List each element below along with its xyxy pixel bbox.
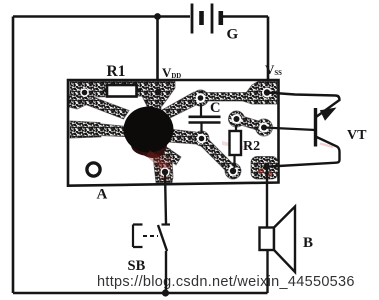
- node: capacitor top pad dot: [196, 93, 206, 103]
- pad: VSS corner pad: [243, 82, 277, 105]
- svg-text:SB: SB: [128, 258, 146, 274]
- wire: from bottom-right pad down to speaker: [266, 167, 268, 228]
- resistor R2: [230, 125, 242, 168]
- transistor VT: [264, 93, 340, 167]
- node: junction dot bottom rail / switch branch: [162, 289, 169, 296]
- red mark: red dots in bottom-right pad: [258, 168, 264, 174]
- trace: middle-left band: [70, 121, 101, 138]
- speaker B: [260, 167, 296, 293]
- wire: left rail: [12, 17, 15, 294]
- wire: emitter from VSS pad: [267, 93, 340, 118]
- red mark: crimson scribble below chip: [146, 150, 171, 173]
- node: bottom-right pad dot: [263, 163, 269, 169]
- pad: dumbbell right pad (base): [256, 119, 273, 136]
- svg-text:https://blog.csdn.net/weixin_4: https://blog.csdn.net/weixin_44550536: [97, 274, 355, 290]
- trace: diagonal from left area to chip: [82, 97, 129, 119]
- fixed contact tick: [162, 223, 171, 225]
- actuator dashed link: [143, 235, 158, 237]
- wire: VDD drop from top rail into board: [156, 17, 159, 93]
- trace: top-left band with VDD pad: [70, 82, 175, 107]
- node: R2 bottom pad dot: [228, 166, 238, 176]
- svg-text:C: C: [210, 100, 220, 116]
- wire: speaker bottom to rail: [266, 250, 268, 293]
- pad: R2 bottom pad: [225, 163, 241, 179]
- chip blob (COB): [124, 107, 174, 153]
- actuator bracket: [133, 225, 143, 248]
- node: capacitor bottom pad dot: [197, 134, 206, 143]
- pad: capacitor bottom pad: [194, 131, 209, 146]
- trace: chip down arm to switch pad: [153, 147, 173, 183]
- trace: VDD stem to chip: [147, 97, 161, 110]
- board outline A: [68, 80, 279, 186]
- trace: chip to top-right pad diagonal: [162, 92, 200, 118]
- svg-text:VT: VT: [347, 128, 367, 143]
- node: VDD pad dot: [155, 89, 161, 95]
- pad: dumbbell left pad (R2 top): [229, 111, 245, 127]
- capacitor C: [189, 104, 221, 133]
- blade: [158, 225, 167, 251]
- trace: top-right band to VSS: [200, 93, 248, 102]
- trace: dumbbell bar: [235, 115, 265, 132]
- node: VSS pad dot: [262, 88, 272, 98]
- node: dumbbell left pad dot: [232, 114, 242, 124]
- wire: collector down to pad: [270, 137, 340, 167]
- wire: top rail right segment (battery to right drop): [221, 15, 268, 17]
- svg-text:B: B: [303, 235, 313, 251]
- red mark: pink streak near R2 area: [222, 141, 244, 149]
- node: junction dot on top rail feeding VDD: [154, 13, 161, 20]
- node: dumbbell right pad dot: [259, 123, 269, 133]
- speaker box: [260, 228, 275, 251]
- pad: capacitor top pad: [193, 90, 209, 106]
- wire: bottom rail: [13, 292, 268, 295]
- emitter arrow: [320, 108, 337, 121]
- node: R1 left trace pad dot: [80, 88, 89, 97]
- svg-text:A: A: [97, 187, 108, 203]
- hole A (board mounting hole): [87, 163, 100, 176]
- base bar: [314, 108, 317, 147]
- node: switch pad dot: [160, 167, 169, 176]
- switch SB (pushbutton): [133, 172, 170, 293]
- pad: bottom-right pad (collector/speaker): [251, 157, 278, 180]
- red mark: maroon under chip: [131, 134, 167, 156]
- trace: chip to capacitor-bottom band: [168, 129, 196, 144]
- trace: left edge descender: [69, 95, 89, 109]
- trace: chip small lower-right arm: [161, 146, 181, 165]
- speaker horn: [274, 207, 295, 273]
- trace: diagonal down to R2 bottom pad: [200, 138, 234, 172]
- red mark: pink streak near collector elbow: [320, 144, 333, 148]
- trace: diagonal mid-left to chip: [96, 124, 127, 137]
- svg-text:G: G: [227, 27, 239, 43]
- battery G: [192, 4, 221, 34]
- wire: battery right terminal down to VSS pad: [267, 17, 270, 86]
- wire: top rail left segment (left corner to battery): [13, 15, 190, 17]
- svg-text:R2: R2: [243, 139, 260, 154]
- wire: from switch pad down to contact: [165, 172, 166, 224]
- resistor R1: [103, 85, 141, 97]
- svg-text:R1: R1: [107, 63, 126, 80]
- wire: lower lead to bottom rail: [165, 251, 167, 293]
- wire: base from dumbbell pad: [264, 128, 316, 131]
